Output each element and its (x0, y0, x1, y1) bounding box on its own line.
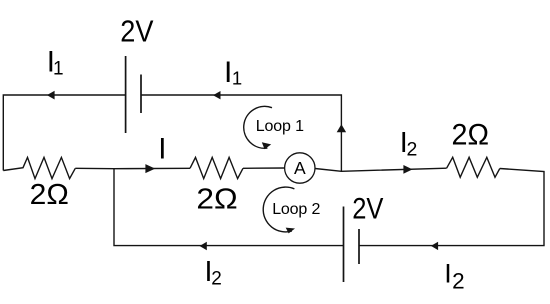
label I2 (middle-right) (400, 127, 418, 160)
current arrow (vertical, pointing up) (337, 124, 346, 132)
svg-text:A: A (294, 158, 306, 178)
label Loop 1 (256, 118, 304, 135)
svg-text:2V: 2V (120, 14, 154, 48)
wire R3 to right corner (359, 169, 544, 246)
label I2 (bottom-right) (444, 258, 464, 293)
ammeter A (285, 153, 315, 183)
label I1 (top-left) (47, 45, 64, 79)
svg-text:1: 1 (53, 59, 64, 80)
svg-text:2: 2 (211, 269, 222, 290)
loop arrow Loop 2 (263, 187, 295, 233)
svg-text:I: I (444, 258, 452, 288)
svg-text:2: 2 (452, 268, 465, 293)
label Loop 2 (272, 201, 320, 218)
svg-text:Loop 2: Loop 2 (272, 201, 320, 218)
value label 2 ohm (middle) (196, 184, 237, 216)
resistor R2 (middle 2 ohm) (190, 157, 243, 178)
svg-text:2Ω: 2Ω (30, 179, 69, 211)
svg-text:2Ω: 2Ω (196, 184, 237, 216)
value label 2V (bottom battery) (352, 193, 383, 226)
svg-text:1: 1 (232, 67, 242, 88)
current arrow I2 (bottom-left, pointing left) (200, 242, 207, 250)
current arrow I1 (top-middle, pointing left) (213, 91, 221, 99)
label I2 (bottom-left) (205, 256, 222, 289)
wire R1 to R2 (through junction) (75, 167, 190, 169)
current arrow I (pointing right) (145, 164, 155, 173)
wire ammeter to R3 (through junction) (315, 168, 447, 171)
label I1 (top-middle) (224, 56, 242, 89)
svg-text:2: 2 (407, 139, 418, 161)
svg-text:Loop 1: Loop 1 (256, 118, 304, 135)
battery V1 (2V, top) (126, 56, 141, 133)
value label 2V (top battery) (120, 14, 154, 48)
label I (middle) (158, 133, 166, 166)
loop arrow Loop 1 (244, 106, 272, 149)
battery V2 (2V, bottom) (344, 207, 360, 283)
value label 2 ohm (left) (30, 179, 69, 211)
current arrow I1 (top-left, pointing left) (47, 91, 55, 100)
value label 2 ohm (right) (452, 118, 490, 151)
svg-text:2Ω: 2Ω (452, 118, 490, 151)
current arrow I2 (middle-right, pointing right) (403, 165, 412, 174)
current arrow I2 (bottom-right, pointing left) (431, 242, 438, 250)
svg-text:I: I (158, 133, 166, 166)
wire top-right segment (141, 95, 341, 171)
resistor R1 (left 2 ohm) (3, 157, 75, 178)
wire top-left segment (3, 95, 125, 171)
svg-text:2V: 2V (352, 193, 383, 226)
wire bottom-left segment (114, 169, 344, 246)
resistor R3 (right 2 ohm) (447, 157, 500, 177)
wire R2 to ammeter (243, 167, 285, 169)
